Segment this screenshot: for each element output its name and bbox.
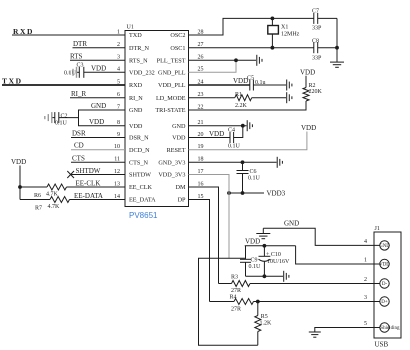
node VDD label above R2 [300, 69, 315, 88]
wire VDD rail top [245, 245, 296, 247]
svg-text:TXD: TXD [2, 76, 23, 85]
svg-text:PLL_TEST: PLL_TEST [157, 58, 186, 65]
ground (pointing right) after C5 [287, 80, 292, 91]
junction OSC1/X1 [271, 46, 275, 50]
wire VDD rail to R7 to pin 14 [20, 199, 50, 201]
svg-text:C9: C9 [251, 257, 258, 263]
svg-text:DSR: DSR [72, 129, 86, 137]
junction C4/pin21 [241, 124, 245, 128]
svg-text:USB: USB [375, 341, 389, 349]
svg-text:DCD_N: DCD_N [129, 147, 150, 154]
svg-text:D+: D+ [381, 300, 388, 305]
wire GND rail to USB pin4 [263, 228, 380, 245]
svg-text:TXD: TXD [129, 32, 142, 39]
wire RTS to pin 3 [70, 59, 125, 61]
svg-text:0.1U: 0.1U [64, 71, 77, 77]
svg-text:GND: GND [129, 107, 143, 114]
junction VDD/C10 [263, 244, 267, 248]
svg-text:VDD_3V3: VDD_3V3 [158, 172, 185, 179]
resistor R5 1.2K pull-up [255, 302, 272, 346]
capacitor C5 0.1u [247, 75, 266, 90]
capacitor C4 0.1U [228, 128, 241, 150]
svg-text:VDD: VDD [91, 65, 106, 73]
svg-text:33P: 33P [312, 55, 322, 61]
wire SHTDW to pin 12 [71, 174, 125, 176]
resistor R1 2.2K [235, 92, 252, 109]
svg-text:+ C10: + C10 [266, 252, 281, 258]
svg-text:VDD: VDD [129, 123, 143, 130]
svg-text:RI_R: RI_R [71, 90, 87, 98]
svg-text:D-: D- [382, 282, 388, 287]
svg-text:GND_3V3: GND_3V3 [158, 160, 185, 167]
svg-text:PV8651: PV8651 [129, 211, 158, 220]
capacitor C3 0.1U on VDD_232 [64, 63, 84, 78]
wire pin 15 DP down [189, 200, 210, 302]
capacitor C8 33P [312, 39, 337, 62]
svg-text:RTS_N: RTS_N [129, 58, 148, 65]
ground (pointing right) at cap rail [284, 271, 289, 282]
svg-text:R7: R7 [35, 205, 42, 211]
wire C5 to ground [253, 84, 286, 86]
svg-text:3: 3 [364, 295, 367, 301]
svg-text:VDD3: VDD3 [267, 190, 286, 198]
svg-text:LD_MODE: LD_MODE [156, 95, 186, 102]
svg-text:VDD: VDD [300, 69, 315, 77]
svg-text:0.1U: 0.1U [248, 176, 261, 182]
svg-text:27: 27 [198, 42, 204, 48]
svg-text:27R: 27R [231, 288, 241, 294]
svg-text:DTR: DTR [73, 40, 87, 48]
wire CTS to pin 11 [71, 161, 125, 163]
ground (gray, pointing left) at C3 [70, 67, 77, 78]
wire pin 7 step to C2 [59, 110, 125, 118]
ground at USB shield [309, 332, 321, 337]
svg-text:GND: GND [172, 123, 186, 130]
junction OSC2/X1 [271, 17, 275, 21]
resistor R4 27R [230, 295, 254, 313]
ground (pointing right) on pin 21 [247, 120, 252, 131]
svg-text:C2: C2 [61, 113, 68, 119]
capacitor C2 0.1U [52, 112, 68, 126]
svg-text:GND: GND [379, 244, 390, 249]
junction R4/R5 [256, 300, 260, 304]
svg-text:DSR_N: DSR_N [129, 135, 149, 142]
resistor R6 4.7K [34, 184, 66, 199]
svg-text:EE-DATA: EE-DATA [74, 192, 103, 200]
wire pin 26 PLL_TEST [189, 59, 257, 61]
svg-text:1: 1 [364, 257, 367, 263]
svg-text:OSC2: OSC2 [170, 32, 185, 39]
wire DM through R3 to USB D- [219, 283, 232, 285]
wire TXD to pin 5 [2, 84, 125, 86]
svg-text:C3: C3 [77, 63, 84, 69]
IC right pin names [155, 32, 186, 204]
ground (pointing right) after R1 [287, 92, 292, 103]
wire DP through R4 to USB D+ [210, 301, 235, 303]
wire pin 22 TRI-STATE [189, 101, 307, 110]
svg-text:GND: GND [284, 219, 299, 227]
wire pin 8 [79, 110, 126, 126]
wire CD to pin 10 (gray) [71, 149, 125, 151]
junction C10 bottom [263, 274, 267, 278]
svg-text:VDD_PLL: VDD_PLL [158, 82, 186, 89]
svg-text:VDD: VDD [301, 124, 316, 132]
wire pin 16 DM down [189, 187, 219, 284]
USB pin 2 D- [364, 277, 389, 288]
svg-text:CTS: CTS [72, 154, 85, 162]
svg-text:VDD: VDD [172, 135, 186, 142]
svg-text:Shielding: Shielding [380, 326, 400, 331]
ground at crystal caps [330, 62, 344, 67]
wire DTR to pin 2 [73, 47, 126, 49]
junction VDD3/gray [227, 191, 231, 195]
svg-text:33P: 33P [312, 26, 322, 32]
capacitor C6 0.1U [237, 162, 261, 193]
svg-text:RXD: RXD [129, 82, 143, 89]
ground (pointing right) on PLL_TEST [257, 55, 262, 66]
wire pin 24 VDD_PLL [189, 84, 250, 86]
wire C3 to pin 4 [84, 71, 125, 73]
wire RI_R to pin 6 [70, 97, 125, 99]
svg-text:C6: C6 [250, 169, 257, 175]
wire pin 21 GND [189, 125, 247, 127]
capacitor C9 0.1U [240, 246, 261, 276]
svg-text:CD: CD [74, 142, 84, 150]
svg-text:0.1U: 0.1U [249, 264, 262, 270]
svg-text:VDD: VDD [379, 263, 390, 268]
USB pin 5 Shielding [364, 321, 400, 332]
svg-text:VDD: VDD [233, 77, 248, 85]
connector J1 USB body [374, 226, 401, 349]
capacitor C7 33P [312, 9, 337, 32]
wire VDD3 net [229, 192, 264, 194]
wire pin 18 GND_3V3 [189, 161, 277, 163]
capacitor C10 10U/16V electrolytic [259, 246, 291, 276]
svg-text:VDD: VDD [11, 158, 26, 166]
wire R5 bottom to VDD3 rail [199, 258, 258, 345]
svg-text:25: 25 [198, 67, 204, 73]
svg-text:5: 5 [364, 321, 367, 327]
svg-text:SHTDW: SHTDW [129, 172, 151, 179]
svg-text:DP: DP [178, 197, 186, 204]
junction pins 25/26 [234, 58, 238, 62]
wire pin 28 OSC2 up and right [189, 18, 314, 35]
svg-text:12MHz: 12MHz [281, 31, 300, 37]
svg-text:R6: R6 [34, 193, 41, 199]
svg-text:SHTDW: SHTDW [76, 167, 101, 175]
svg-text:U1: U1 [127, 25, 134, 31]
ground (pointing right) on pin 18 [277, 157, 282, 168]
svg-text:VDD: VDD [89, 118, 104, 126]
svg-text:RTS: RTS [70, 53, 83, 61]
svg-text:EE_CLK: EE_CLK [129, 184, 153, 191]
junction C8/ground [335, 46, 339, 50]
svg-text:27R: 27R [231, 306, 241, 312]
svg-text:2: 2 [364, 277, 367, 283]
junction VDD3/C6 [241, 191, 245, 195]
junction C6 top [241, 160, 245, 164]
svg-text:EE_DATA: EE_DATA [129, 197, 156, 204]
wire pin 25 GND_PLL tie [189, 60, 237, 72]
USB pin 4 GND [364, 239, 390, 250]
wire pin 17 VDD_3V3 down (gray) [189, 175, 230, 259]
USB pin 3 D+ [364, 295, 389, 306]
USB pin 1 VDD [364, 257, 390, 268]
svg-text:VDD_232: VDD_232 [129, 70, 155, 77]
wire DSR to pin 9 [71, 137, 125, 139]
svg-text:4.7K: 4.7K [48, 204, 61, 210]
IC right pin numbers 28-15 [198, 29, 204, 200]
node SHTDW label with no-connect X [67, 167, 100, 178]
svg-text:RI_N: RI_N [129, 95, 143, 102]
IC left pin names [129, 32, 156, 204]
svg-text:DM: DM [176, 184, 186, 191]
IC left pin numbers 1-14 [114, 29, 120, 200]
wire cap bottom rail [246, 275, 284, 277]
svg-text:EE-CLK: EE-CLK [76, 179, 101, 187]
wire C4 up to pin 21 net [234, 126, 243, 138]
svg-text:2: 2 [117, 42, 120, 48]
svg-text:DTR_N: DTR_N [129, 45, 149, 52]
svg-text:TRI-STATE: TRI-STATE [155, 107, 185, 114]
svg-text:0.1U: 0.1U [228, 144, 241, 150]
wire USB shield to ground [315, 328, 380, 332]
wire pin 20 VDD [189, 137, 230, 139]
wire VDD to USB pin1 [296, 246, 380, 264]
wire RXD to pin 1 [12, 34, 125, 36]
wire pin 27 OSC1 [189, 47, 314, 49]
svg-text:GND: GND [91, 102, 106, 110]
svg-text:R5: R5 [261, 314, 268, 320]
svg-text:220K: 220K [309, 89, 323, 95]
resistor R2 220K pull-up [303, 83, 323, 101]
svg-text:4: 4 [364, 239, 367, 245]
wire pin 19 RESET to VDD (gray) [189, 132, 307, 150]
resistor R3 27R [231, 275, 250, 294]
svg-text:OSC1: OSC1 [170, 45, 185, 52]
svg-text:X1: X1 [281, 25, 288, 31]
ground at GND rail [256, 228, 270, 238]
svg-text:0.1U: 0.1U [55, 120, 68, 126]
svg-text:GND_PLL: GND_PLL [158, 70, 186, 77]
svg-text:R3: R3 [231, 275, 238, 281]
svg-text:CTS_N: CTS_N [129, 160, 148, 167]
op-amp U1 PV8651 IC body [125, 25, 189, 207]
ground (gray, pointing left) at C2 [45, 112, 52, 123]
svg-text:J1: J1 [375, 226, 380, 232]
wire VDD rail to R6 to pin 13 [20, 186, 47, 188]
svg-text:RESET: RESET [167, 147, 186, 154]
svg-text:1.2K: 1.2K [260, 321, 273, 327]
crystal X1 12MHz [268, 18, 300, 47]
svg-text:2.2K: 2.2K [235, 103, 248, 109]
svg-text:4: 4 [117, 67, 120, 73]
svg-text:VDD: VDD [245, 238, 260, 246]
wire C7/C8 common down [336, 18, 338, 62]
resistor R7 4.7K [35, 197, 69, 212]
junction VDD rail / R6 [18, 185, 22, 189]
wire pin 23 LD_MODE [189, 97, 235, 99]
node VDD pull-up rail label (left) [11, 158, 26, 200]
